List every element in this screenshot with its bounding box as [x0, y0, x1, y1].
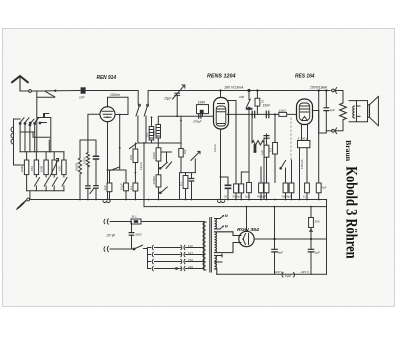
variable coil L4	[50, 152, 59, 191]
blocking cap C-sp	[319, 89, 335, 133]
svg-text:200V/11mA: 200V/11mA	[309, 85, 328, 89]
secondary winding B	[215, 232, 241, 253]
resistor R-e5	[288, 183, 294, 200]
wave trap coil L1	[20, 152, 29, 191]
capacitor C-ant	[81, 87, 86, 93]
svg-text:10µF: 10µF	[119, 183, 123, 190]
secondary winding A	[215, 214, 228, 229]
svg-text:M: M	[225, 214, 228, 218]
svg-text:100: 100	[183, 149, 187, 154]
anode coil branch	[134, 143, 136, 149]
svg-text:0.1: 0.1	[152, 130, 156, 135]
heater return rail H3	[144, 206, 327, 208]
filter cap C-f2	[308, 239, 319, 274]
RES plate to speaker	[313, 91, 319, 111]
coil can 1540	[197, 101, 209, 117]
svg-text:15µF: 15µF	[164, 97, 172, 101]
resistor R-d3	[279, 109, 287, 117]
svg-text:100: 100	[58, 166, 62, 171]
speaker cone	[368, 96, 379, 125]
resistor R-e1	[268, 113, 277, 182]
mains lead bottom	[104, 246, 134, 251]
mains lead top	[104, 219, 204, 224]
svg-text:Kobold 3 Röhren: Kobold 3 Röhren	[343, 166, 360, 258]
svg-text:4µF: 4µF	[278, 251, 283, 255]
svg-text:180 V/13mA: 180 V/13mA	[224, 85, 244, 89]
wire to selector	[144, 248, 148, 249]
svg-text:4µF: 4µF	[322, 186, 327, 190]
plate decoupling drop	[318, 111, 320, 184]
svg-text:12mA: 12mA	[139, 162, 143, 170]
band switch contacts	[136, 104, 149, 116]
svg-text:µF: µF	[288, 195, 291, 199]
IF coil T2	[145, 116, 161, 147]
resistor R-c2	[152, 175, 161, 200]
resistor R-k3	[239, 172, 250, 200]
left coil block top leads	[19, 91, 64, 152]
svg-text:110: 110	[188, 244, 193, 248]
svg-text:20000: 20000	[152, 176, 156, 185]
svg-text:135mA: 135mA	[300, 159, 304, 169]
mains switch	[134, 245, 143, 249]
antenna primary coil	[11, 119, 27, 165]
wire	[37, 91, 41, 152]
transformer primary	[203, 222, 206, 271]
main top rail H1 left	[85, 91, 138, 105]
cathode bypass switch	[90, 188, 94, 194]
resistor R-c1	[152, 148, 161, 175]
mains cap	[129, 222, 142, 250]
contact drop wires	[19, 124, 21, 152]
svg-text:Feld: Feld	[285, 274, 291, 278]
switch S-b	[130, 144, 137, 149]
anode switch S-d	[246, 89, 251, 182]
svg-text:250: 250	[315, 220, 320, 224]
switch S-e	[280, 160, 292, 183]
svg-text:12kΩ: 12kΩ	[279, 109, 287, 113]
coupling to RENS grid	[157, 116, 159, 124]
fuse Si1	[131, 214, 141, 224]
cathode cap column	[80, 140, 99, 200]
selector taps	[155, 245, 205, 270]
svg-text:215 V: 215 V	[300, 270, 310, 274]
capacitor C-b2	[119, 170, 128, 200]
wave trap coil L3	[40, 152, 50, 191]
svg-text:1000: 1000	[40, 165, 44, 172]
svg-text:µF: µF	[239, 195, 242, 199]
svg-text:15nF: 15nF	[263, 104, 272, 108]
svg-text:127: 127	[188, 251, 193, 255]
band switch drop wire D1	[138, 116, 181, 207]
svg-text:100: 100	[239, 95, 244, 99]
speaker terminal C1	[332, 88, 337, 94]
svg-text:100: 100	[129, 155, 133, 160]
svg-text:Braun: Braun	[344, 140, 351, 161]
antenna switch S1	[37, 91, 55, 97]
coil L5	[58, 152, 68, 191]
wire staircase	[41, 114, 51, 152]
switch S-a	[110, 167, 120, 171]
wave trap coil L2	[30, 152, 40, 191]
tube REN 914	[100, 107, 115, 122]
svg-text:1000: 1000	[20, 165, 24, 172]
secondary winding C	[215, 254, 222, 274]
svg-text:M: M	[225, 225, 228, 229]
svg-text:4000: 4000	[257, 195, 263, 199]
RGN output line	[254, 238, 326, 240]
RENS cathode drop	[220, 129, 222, 200]
main top rail H1 right	[148, 91, 330, 105]
junction dots	[79, 114, 320, 208]
switch link bars	[21, 114, 50, 138]
trimmer C-t1	[173, 85, 185, 99]
switch S-c1	[160, 162, 168, 169]
REN anode wire	[108, 122, 120, 200]
ground symbol	[16, 198, 29, 210]
RGN anode feed	[246, 207, 248, 232]
svg-text:0.1: 0.1	[129, 185, 133, 190]
bottom supply line	[217, 273, 327, 275]
resistor R-d2	[255, 89, 265, 114]
tap labels	[188, 244, 193, 269]
wire to coupling cap	[45, 90, 80, 92]
svg-text:A: A	[321, 85, 324, 89]
capacitor C-g2	[199, 115, 201, 119]
svg-text:220: 220	[188, 265, 193, 269]
junction bar	[20, 151, 64, 153]
speaker terminal C2	[326, 128, 336, 134]
svg-text:1000: 1000	[152, 152, 156, 159]
svg-text:REN 914: REN 914	[97, 75, 117, 81]
mech link dashed	[290, 118, 292, 161]
svg-text:370pF: 370pF	[193, 119, 202, 123]
RES cathode network	[297, 125, 310, 200]
resistor R-f1	[303, 183, 309, 200]
svg-text:150: 150	[30, 166, 34, 171]
switch S-c	[166, 162, 172, 169]
plate load column	[229, 101, 239, 200]
svg-text:1µF: 1µF	[260, 150, 264, 155]
svg-text:50000: 50000	[253, 144, 257, 153]
svg-text:10: 10	[261, 99, 265, 103]
svg-text:2µF: 2µF	[329, 108, 335, 112]
bleeder R-bl	[309, 207, 320, 240]
plate wire REN	[115, 114, 128, 116]
tube RGN 354	[239, 231, 254, 246]
svg-text:16mA: 16mA	[213, 144, 217, 152]
coil bottom bar	[27, 191, 64, 200]
filter cap C-f1	[272, 207, 283, 275]
svg-text:20 W: 20 W	[106, 234, 116, 238]
switch S-c2	[160, 187, 168, 194]
heater bumps RENS	[218, 201, 225, 203]
capacitor C-b1	[103, 170, 112, 200]
trimmer drop to grid	[160, 95, 214, 116]
svg-text:5000: 5000	[136, 233, 143, 237]
resistor R-e4	[282, 183, 290, 200]
resistor R-a3	[129, 163, 138, 200]
transformer core	[210, 218, 212, 273]
capacitor C-c2	[189, 179, 193, 182]
screen wire	[180, 116, 182, 172]
svg-text:2µF: 2µF	[245, 195, 250, 199]
speaker magnet	[357, 101, 368, 122]
detector load R-z	[252, 114, 264, 199]
capacitor C-d1	[252, 111, 255, 117]
detector line H2	[227, 113, 297, 115]
svg-text:20000: 20000	[75, 162, 79, 171]
resistor R-a2	[129, 149, 138, 163]
svg-text:100cm: 100cm	[110, 93, 120, 97]
voltage selector	[148, 245, 154, 270]
resistor R-d1	[245, 183, 251, 200]
svg-text:X 150 Δ: X 150 Δ	[297, 136, 309, 140]
cathode bypass cap RENS	[220, 176, 231, 199]
REN grid leak column	[82, 114, 100, 199]
grid cap stub REN	[108, 97, 129, 114]
antenna terminal	[29, 90, 32, 93]
speaker voice coil	[349, 101, 357, 122]
heater bumps REN	[103, 201, 110, 203]
capacitor C-c1	[162, 152, 188, 200]
svg-text:1000: 1000	[82, 157, 86, 164]
svg-text:µF: µF	[263, 195, 266, 199]
capacitor column C-x	[260, 134, 269, 200]
svg-text:RENS 1204: RENS 1204	[207, 74, 236, 80]
svg-text:0.2: 0.2	[145, 132, 149, 137]
interstage vertical	[120, 115, 126, 171]
REN grid return column	[75, 140, 82, 200]
capacitor C-d2	[266, 111, 269, 117]
antenna	[11, 76, 28, 91]
RENS grid cap stub	[220, 91, 222, 98]
variable arrow	[191, 151, 200, 172]
svg-text:2µF: 2µF	[313, 251, 319, 255]
ground bus	[30, 199, 327, 201]
svg-text:RES 164: RES 164	[295, 74, 315, 80]
tube RES 164	[297, 99, 313, 125]
speaker shunt resistor	[334, 91, 346, 131]
contact row	[20, 118, 24, 123]
resistor R-f2	[316, 183, 327, 200]
svg-text:1µF: 1µF	[103, 185, 107, 190]
svg-text:150: 150	[188, 258, 193, 262]
resistor R-e3	[257, 167, 263, 200]
svg-text:Si 1: Si 1	[132, 214, 138, 218]
right end verticals to bottom line	[326, 200, 328, 275]
svg-text:1540: 1540	[198, 101, 206, 105]
tube RENS 1204	[214, 98, 229, 130]
wire antenna to switch	[20, 90, 45, 92]
